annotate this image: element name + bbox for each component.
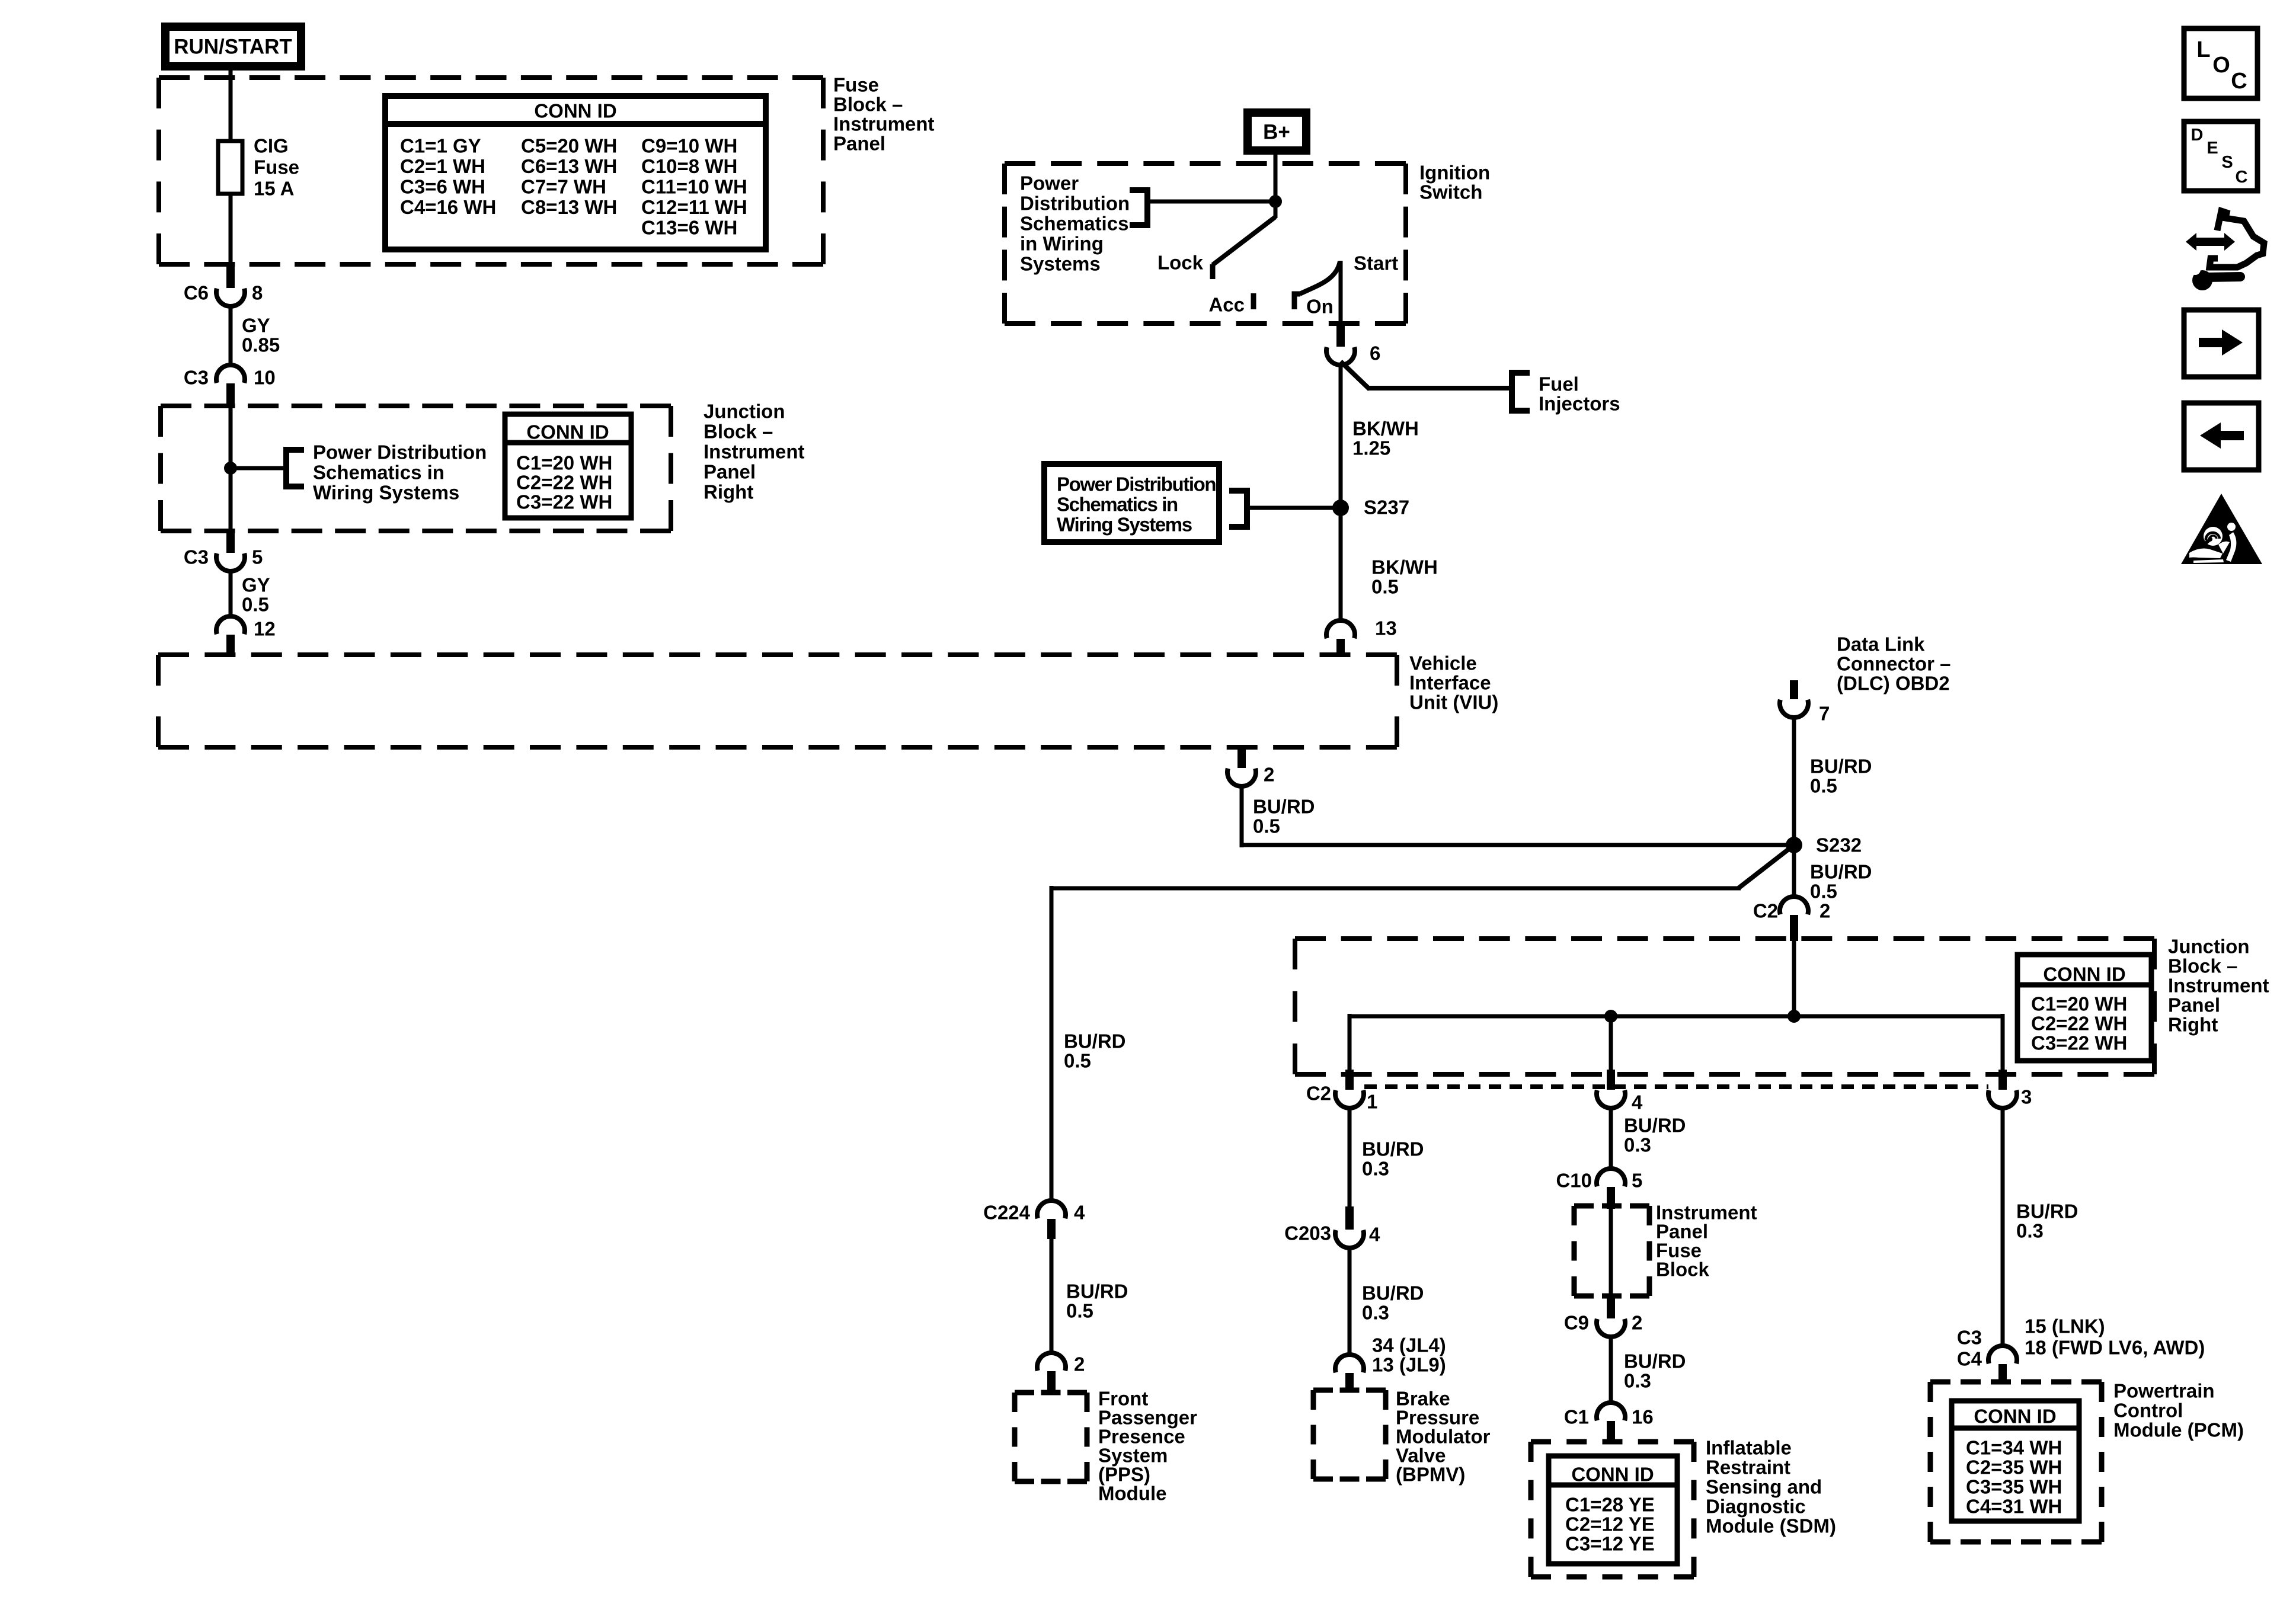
connector C3/C4 to PCM	[1988, 1346, 2017, 1363]
svg-text:7: 7	[1819, 703, 1830, 725]
svg-text:Power Distribution: Power Distribution	[313, 441, 487, 463]
fuse block - instrument panel dashed box	[159, 75, 823, 80]
svg-text:2: 2	[1074, 1353, 1085, 1375]
connector C2 pin 1	[1345, 1070, 1354, 1090]
svg-text:5: 5	[252, 546, 263, 568]
svg-text:C3=22 WH: C3=22 WH	[2031, 1032, 2127, 1054]
svg-text:Module (SDM): Module (SDM)	[1706, 1515, 1836, 1537]
svg-text:Lock: Lock	[1157, 252, 1204, 274]
svg-text:Diagnostic: Diagnostic	[1706, 1496, 1806, 1518]
svg-text:C10=8 WH: C10=8 WH	[641, 155, 737, 177]
node junction dot	[224, 462, 237, 475]
connector pin 2 to PPS module	[1037, 1353, 1066, 1371]
connector pin 2 from VIU	[1237, 748, 1246, 768]
svg-text:Schematics in: Schematics in	[1057, 494, 1178, 516]
wire S232 to connector C2	[1792, 845, 1796, 897]
svg-text:C2: C2	[1306, 1083, 1331, 1105]
svg-text:CONN ID: CONN ID	[1974, 1406, 2056, 1427]
svg-text:BU/RD: BU/RD	[1362, 1282, 1424, 1304]
connector C2 pin 2 to junction block	[1780, 897, 1808, 914]
power feed B+ box	[1243, 108, 1310, 155]
svg-text:C1=20 WH: C1=20 WH	[2031, 993, 2127, 1015]
svg-text:C3=22 WH: C3=22 WH	[516, 491, 612, 513]
svg-text:C6=13 WH: C6=13 WH	[521, 155, 617, 177]
wire drop to pin 4	[1609, 1016, 1613, 1071]
svg-text:Start: Start	[1354, 252, 1398, 274]
svg-text:Switch: Switch	[1419, 181, 1482, 203]
connector pin 7 from DLC	[1790, 680, 1798, 699]
svg-text:Power: Power	[1020, 172, 1079, 194]
svg-text:Acc: Acc	[1208, 294, 1245, 316]
node B+ junction dot	[1269, 195, 1282, 208]
powertrain control module PCM dashed box	[1930, 1379, 2102, 1385]
svg-text:0.5: 0.5	[242, 594, 269, 616]
wire BU/RD 0.5 to PPS	[1050, 1235, 1054, 1353]
svg-text:Right: Right	[703, 481, 753, 503]
CONN ID table - SDM	[1549, 1456, 1677, 1564]
icon back arrow box	[2184, 403, 2259, 470]
svg-text:C1=34 WH: C1=34 WH	[1966, 1437, 2062, 1459]
svg-text:0.5: 0.5	[1810, 775, 1837, 797]
wire inside junction block	[229, 406, 233, 532]
svg-text:CONN ID: CONN ID	[1571, 1464, 1654, 1486]
svg-text:Panel: Panel	[833, 133, 885, 155]
svg-text:C2=1 WH: C2=1 WH	[400, 155, 485, 177]
CONN ID table - junction block right	[2017, 955, 2151, 1061]
bus wire inside junction block	[1350, 1014, 2003, 1019]
svg-text:On: On	[1306, 296, 1334, 318]
svg-text:Distribution: Distribution	[1020, 193, 1130, 215]
icon diagnostic connector with arrows and wrench	[2186, 233, 2235, 251]
pin into C9	[1607, 1295, 1615, 1318]
svg-text:C7=7 WH: C7=7 WH	[521, 176, 606, 198]
svg-text:Panel: Panel	[2168, 994, 2220, 1016]
connector pin 12 to VIU	[216, 616, 245, 634]
svg-text:Restraint: Restraint	[1706, 1457, 1790, 1478]
connector pins 34/13 to BPMV	[1335, 1355, 1364, 1372]
wire C2-2 into junction block	[1792, 940, 1796, 1016]
svg-text:2: 2	[1819, 900, 1830, 922]
wire S232 diagonal branch	[1738, 845, 1794, 888]
connector C224 pin 4	[1037, 1201, 1066, 1218]
svg-text:Powertrain: Powertrain	[2113, 1380, 2215, 1402]
bracket power distribution schematics	[286, 450, 304, 486]
svg-text:C3=6 WH: C3=6 WH	[400, 176, 485, 198]
svg-text:0.5: 0.5	[1253, 815, 1280, 837]
svg-text:C12=11 WH: C12=11 WH	[641, 196, 747, 218]
connector C10 pin 5	[1597, 1169, 1625, 1186]
svg-text:15 (LNK): 15 (LNK)	[2025, 1315, 2105, 1337]
svg-text:C1=20 WH: C1=20 WH	[516, 452, 612, 474]
svg-text:3: 3	[2021, 1086, 2032, 1108]
svg-text:Vehicle: Vehicle	[1409, 652, 1477, 674]
svg-text:S: S	[2221, 153, 2233, 172]
svg-text:GY: GY	[242, 574, 270, 596]
svg-text:C6: C6	[184, 282, 209, 304]
svg-text:Module (PCM): Module (PCM)	[2113, 1419, 2244, 1441]
svg-text:Junction: Junction	[2168, 936, 2250, 958]
contact On	[1294, 294, 1300, 309]
svg-text:CONN ID: CONN ID	[534, 100, 616, 122]
svg-text:18 (FWD LV6, AWD): 18 (FWD LV6, AWD)	[2025, 1337, 2205, 1359]
svg-text:Block: Block	[1656, 1259, 1710, 1281]
wire BU/RD 0.3 from C2-1	[1348, 1108, 1352, 1208]
svg-text:C1=28 YE: C1=28 YE	[1565, 1494, 1655, 1516]
svg-text:BU/RD: BU/RD	[1810, 861, 1872, 883]
svg-text:Sensing and: Sensing and	[1706, 1476, 1822, 1498]
svg-text:1: 1	[1367, 1091, 1377, 1113]
svg-text:0.5: 0.5	[1810, 881, 1837, 902]
switch curve On to Start	[1300, 261, 1340, 294]
wire BU/RD 0.3 from pin 3	[2001, 1108, 2005, 1346]
svg-text:BU/RD: BU/RD	[1253, 796, 1315, 818]
svg-text:BK/WH: BK/WH	[1371, 556, 1438, 578]
wire bracket to B+ node	[1147, 200, 1275, 204]
brake pressure modulator valve BPMV dashed box	[1313, 1388, 1386, 1393]
svg-text:CIG: CIG	[254, 135, 289, 157]
svg-text:C2=12 YE: C2=12 YE	[1565, 1513, 1655, 1535]
connector C203 pin 4	[1345, 1206, 1354, 1230]
svg-text:C1: C1	[1564, 1406, 1589, 1428]
svg-text:Connector –: Connector –	[1837, 653, 1951, 675]
vehicle interface unit dashed box	[158, 652, 1397, 657]
svg-text:4: 4	[1369, 1224, 1380, 1246]
svg-text:15 A: 15 A	[254, 178, 294, 200]
svg-text:0.5: 0.5	[1371, 576, 1399, 598]
icon SIR airbag warning triangle	[2181, 494, 2262, 564]
svg-text:(DLC) OBD2: (DLC) OBD2	[1837, 673, 1950, 694]
CONN ID table - fuse block	[385, 96, 766, 249]
svg-text:RUN/START: RUN/START	[174, 36, 292, 59]
svg-text:C1=1 GY: C1=1 GY	[400, 135, 481, 157]
svg-text:Wiring Systems: Wiring Systems	[313, 482, 459, 504]
svg-text:C9=10 WH: C9=10 WH	[641, 135, 737, 157]
CONN ID table - PCM	[1952, 1401, 2079, 1521]
svg-text:BU/RD: BU/RD	[1624, 1350, 1686, 1372]
wire GY 0.85	[229, 306, 233, 365]
svg-text:4: 4	[1632, 1092, 1643, 1113]
wire bracket to S237	[1247, 506, 1341, 510]
svg-text:BU/RD: BU/RD	[1066, 1281, 1128, 1302]
wire VIU to S232	[1242, 843, 1794, 847]
svg-text:0.5: 0.5	[1066, 1300, 1093, 1322]
junction block - instrument panel right dashed box bottom	[1295, 936, 2154, 941]
svg-text:C5=20 WH: C5=20 WH	[521, 135, 617, 157]
svg-text:C224: C224	[983, 1202, 1031, 1224]
svg-text:6: 6	[1370, 343, 1380, 364]
bracket S237 callout	[1229, 491, 1247, 527]
svg-text:13: 13	[1375, 617, 1397, 639]
svg-text:Instrument: Instrument	[2168, 975, 2269, 997]
wire drop to C2-1	[1348, 1014, 1352, 1071]
connector pin 4	[1607, 1070, 1615, 1090]
svg-text:5: 5	[1632, 1170, 1642, 1192]
svg-text:Schematics in: Schematics in	[313, 462, 445, 484]
bracket to B+ feed	[1130, 190, 1147, 225]
svg-text:2: 2	[1632, 1312, 1642, 1334]
node S232 splice dot	[1786, 837, 1802, 853]
wire inside fuse block	[1609, 1208, 1613, 1296]
svg-text:Block –: Block –	[833, 94, 903, 116]
svg-text:S237: S237	[1364, 497, 1409, 518]
svg-text:C13=6 WH: C13=6 WH	[641, 217, 737, 239]
svg-text:(BPMV): (BPMV)	[1396, 1464, 1465, 1486]
svg-text:C3=12 YE: C3=12 YE	[1565, 1533, 1655, 1555]
wire B+ down	[1274, 152, 1278, 218]
wire BU/RD 0.5 from VIU	[1240, 786, 1244, 847]
svg-text:Systems: Systems	[1020, 253, 1101, 275]
front passenger presence system PPS module dashed box	[1015, 1390, 1087, 1395]
contact Acc	[1251, 293, 1256, 309]
wire BU/RD 0.5 from DLC	[1792, 718, 1796, 845]
node S237 splice dot	[1332, 500, 1349, 516]
svg-text:GY: GY	[242, 315, 270, 337]
wire RUN/START to CIG fuse	[229, 71, 233, 142]
svg-text:0.3: 0.3	[1624, 1370, 1651, 1392]
connector C3 pin 10	[216, 365, 245, 383]
switch wiper to Lock	[1213, 217, 1275, 265]
svg-text:Block –: Block –	[703, 421, 773, 443]
node bus dot right	[1787, 1010, 1801, 1023]
svg-text:C2=22 WH: C2=22 WH	[2031, 1013, 2127, 1035]
svg-text:C: C	[2236, 168, 2248, 187]
svg-text:1.25: 1.25	[1352, 437, 1390, 459]
svg-text:Instrument: Instrument	[703, 441, 805, 463]
svg-text:BU/RD: BU/RD	[1624, 1115, 1686, 1137]
svg-text:C3: C3	[1957, 1327, 1982, 1349]
svg-text:L: L	[2196, 37, 2210, 62]
svg-text:BK/WH: BK/WH	[1352, 418, 1419, 440]
junction block - instrument panel right dashed box	[161, 404, 671, 408]
connector C3 pin 5	[226, 531, 235, 553]
svg-text:0.3: 0.3	[1624, 1134, 1651, 1156]
svg-text:Inflatable: Inflatable	[1706, 1437, 1792, 1459]
svg-text:Schematics: Schematics	[1020, 213, 1128, 235]
svg-text:Power Distribution: Power Distribution	[1057, 473, 1216, 495]
svg-text:O: O	[2212, 53, 2230, 78]
svg-text:C203: C203	[1284, 1222, 1331, 1244]
node bus dot left	[1604, 1010, 1617, 1023]
wire to schematics bracket	[231, 466, 286, 470]
wire to PPS branch	[1051, 886, 1741, 891]
svg-text:BU/RD: BU/RD	[2016, 1201, 2078, 1222]
svg-text:CONN ID: CONN ID	[2043, 964, 2125, 985]
svg-text:8: 8	[252, 282, 263, 304]
connector C1 pin 16 to SDM	[1597, 1403, 1625, 1420]
svg-text:10: 10	[254, 367, 276, 389]
svg-text:Fuse: Fuse	[254, 156, 299, 178]
icon DESC box	[2184, 121, 2257, 191]
svg-text:Junction: Junction	[703, 401, 785, 422]
svg-text:Fuel: Fuel	[1539, 373, 1579, 395]
svg-text:BU/RD: BU/RD	[1810, 756, 1872, 777]
svg-text:C2=22 WH: C2=22 WH	[516, 472, 612, 494]
wire Start position down to connector 6	[1339, 261, 1343, 326]
svg-text:B+: B+	[1263, 121, 1290, 144]
instrument panel fuse block dashed box	[1574, 1204, 1649, 1209]
wire CIG fuse to connector C6	[229, 193, 233, 268]
wire BK/WH 1.25	[1339, 365, 1343, 620]
svg-text:BU/RD: BU/RD	[1064, 1030, 1126, 1052]
bracket fuel injectors	[1512, 373, 1530, 411]
svg-text:34 (JL4): 34 (JL4)	[1372, 1334, 1446, 1356]
svg-text:C4: C4	[1957, 1348, 1982, 1370]
svg-text:Interface: Interface	[1409, 672, 1491, 694]
svg-text:16: 16	[1632, 1406, 1654, 1428]
power feed RUN/START box	[161, 23, 305, 71]
svg-text:13 (JL9): 13 (JL9)	[1372, 1354, 1446, 1376]
svg-text:C8=13 WH: C8=13 WH	[521, 196, 617, 218]
svg-text:Data Link: Data Link	[1837, 633, 1925, 655]
contact Lock	[1210, 264, 1216, 279]
svg-text:C2: C2	[1753, 900, 1778, 922]
svg-text:4: 4	[1074, 1202, 1085, 1224]
svg-text:C: C	[2231, 69, 2247, 94]
svg-text:in Wiring: in Wiring	[1020, 233, 1104, 255]
svg-text:Injectors: Injectors	[1539, 393, 1620, 415]
svg-text:0.3: 0.3	[1362, 1302, 1389, 1324]
wire BU/RD 0.3 to BPMV	[1348, 1248, 1352, 1355]
svg-text:0.3: 0.3	[2016, 1220, 2044, 1242]
connector pin 3	[1998, 1070, 2007, 1090]
svg-text:D: D	[2191, 126, 2204, 145]
svg-text:C11=10 WH: C11=10 WH	[641, 176, 747, 198]
svg-text:C4=16 WH: C4=16 WH	[400, 196, 496, 218]
wire BU/RD 0.3 from pin 4	[1609, 1108, 1613, 1169]
inflatable restraint SDM dashed box	[1531, 1439, 1694, 1445]
svg-text:C10: C10	[1556, 1170, 1592, 1192]
svg-text:Unit (VIU): Unit (VIU)	[1409, 692, 1498, 713]
svg-text:C3=35 WH: C3=35 WH	[1966, 1476, 2062, 1498]
connector row dotted line	[1364, 1084, 1988, 1089]
wire BU/RD 0.3 to SDM	[1609, 1337, 1613, 1403]
svg-text:C3: C3	[184, 367, 209, 389]
svg-text:Module: Module	[1098, 1483, 1166, 1505]
svg-text:Fuse: Fuse	[833, 74, 879, 96]
svg-text:Wiring Systems: Wiring Systems	[1057, 514, 1192, 536]
svg-text:0.3: 0.3	[1362, 1158, 1389, 1180]
wire drop to pin 3	[2001, 1014, 2005, 1071]
svg-text:Panel: Panel	[703, 461, 756, 483]
svg-text:C9: C9	[1564, 1312, 1589, 1334]
svg-text:Ignition: Ignition	[1419, 162, 1490, 184]
CONN ID table - junction block left	[505, 414, 631, 518]
svg-text:2: 2	[1264, 764, 1274, 786]
svg-text:S232: S232	[1816, 834, 1862, 856]
svg-text:Right: Right	[2168, 1014, 2218, 1036]
svg-text:0.85: 0.85	[242, 334, 280, 356]
svg-text:Block –: Block –	[2168, 955, 2237, 977]
svg-text:CONN ID: CONN ID	[526, 421, 609, 443]
icon LOC box	[2184, 28, 2257, 98]
svg-text:E: E	[2207, 139, 2218, 158]
ignition switch dashed box	[1005, 161, 1406, 166]
icon forward arrow box	[2184, 310, 2259, 377]
svg-text:C3: C3	[184, 546, 209, 568]
fuse CIG 15A	[218, 141, 242, 194]
svg-text:C2=35 WH: C2=35 WH	[1966, 1457, 2062, 1478]
svg-text:0.5: 0.5	[1064, 1050, 1091, 1072]
svg-text:Instrument: Instrument	[833, 113, 935, 135]
callout box power distribution schematics	[1044, 464, 1219, 542]
connector pin 13 to VIU	[1326, 620, 1355, 638]
svg-text:12: 12	[254, 618, 276, 640]
connector C6 pin 8	[226, 267, 235, 288]
wire to fuel injectors	[1341, 361, 1370, 389]
svg-text:Control: Control	[2113, 1400, 2183, 1422]
svg-text:C4=31 WH: C4=31 WH	[1966, 1496, 2062, 1518]
connector pin 6	[1336, 325, 1345, 347]
svg-text:BU/RD: BU/RD	[1362, 1138, 1424, 1160]
wire GY 0.5	[229, 571, 233, 616]
